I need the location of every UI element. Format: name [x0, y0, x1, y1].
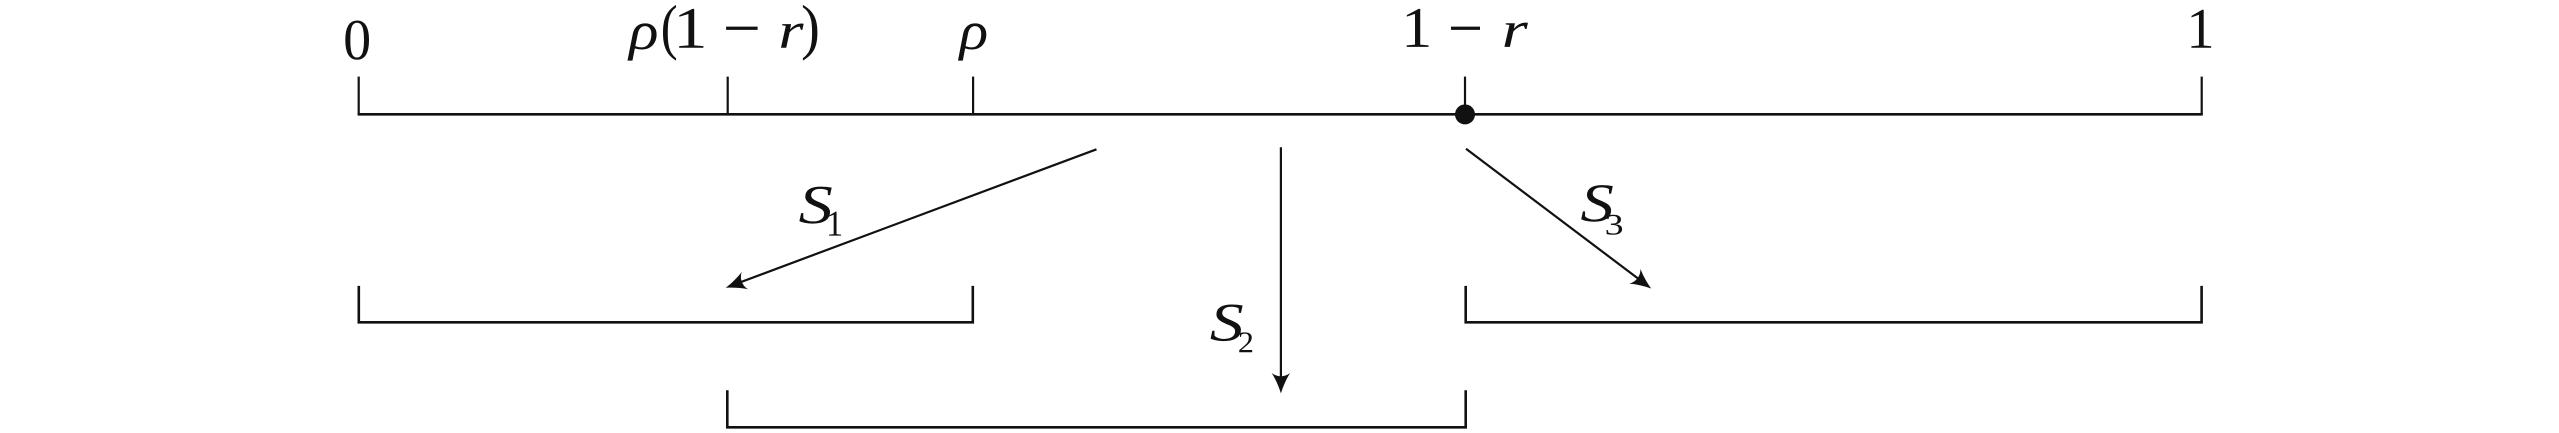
node dot at 1-r [1455, 104, 1475, 124]
bracket S2 image [rho(1-r), 1-r] [727, 390, 1465, 427]
label S3 [1581, 185, 1613, 222]
arrow S3 [1466, 149, 1642, 282]
label rho(1-r) [627, 23, 656, 60]
label S2 [1211, 305, 1243, 342]
number line [358, 113, 2203, 116]
arrow S2 [1280, 147, 1282, 379]
label 1 [2191, 10, 2211, 48]
label S1 [799, 187, 831, 224]
bracket S1 image [0, rho] [359, 286, 973, 322]
bracket S3 image [1-r, 1] [1466, 286, 2202, 322]
tick 0 [358, 77, 360, 115]
label rho [958, 23, 986, 60]
arrow S1 [738, 149, 1097, 283]
tick 1 [2201, 77, 2203, 115]
tick rho [972, 77, 974, 115]
tick rho(1-r) [727, 77, 729, 115]
label 0 [345, 20, 369, 59]
tick 1-r [1464, 77, 1466, 110]
label 1-r [1407, 9, 1429, 47]
